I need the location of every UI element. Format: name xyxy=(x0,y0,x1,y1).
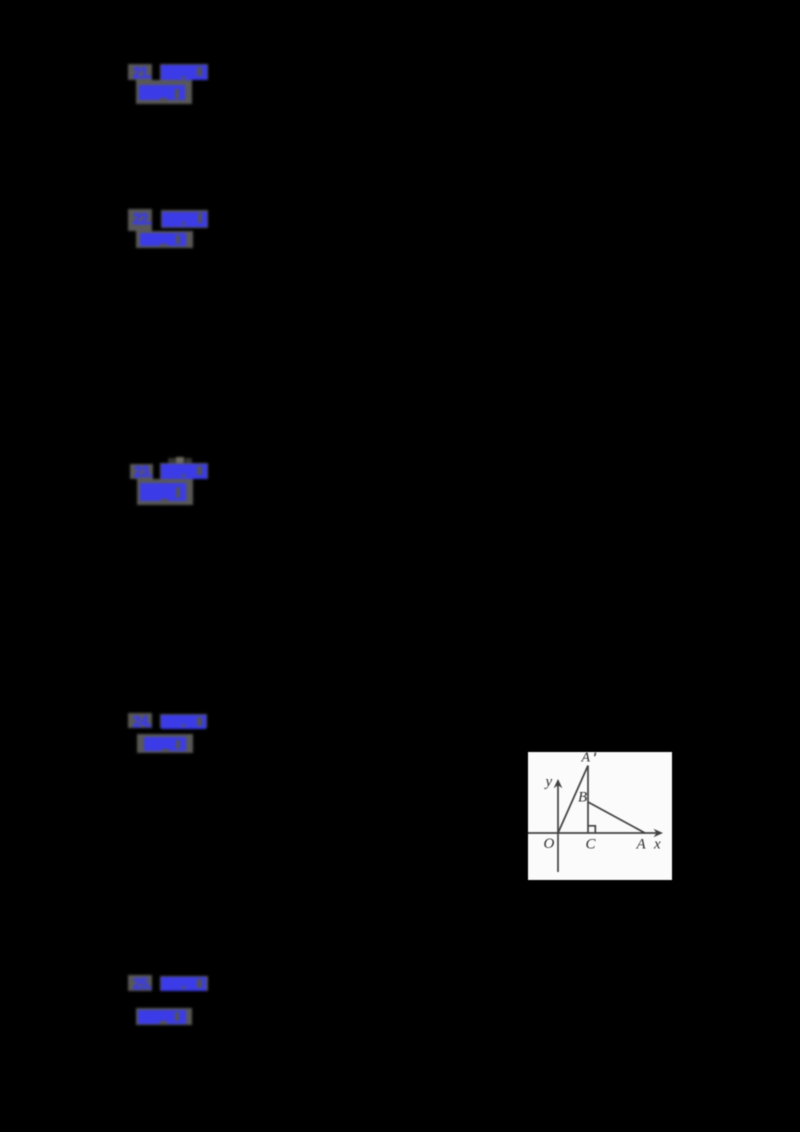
item 23 label highlight xyxy=(160,463,209,480)
segment B to A xyxy=(588,802,645,833)
item 21 label highlight xyxy=(160,64,208,80)
y axis xyxy=(557,781,559,873)
item 24 label highlight xyxy=(160,714,207,729)
item 25 line2 highlight xyxy=(136,1008,192,1025)
item 22 number highlight xyxy=(128,209,152,231)
item 23 line2 highlight xyxy=(137,479,193,505)
item 25 xyxy=(120,967,220,1033)
item 24 line2 blue block xyxy=(144,737,186,751)
y axis arrowhead xyxy=(554,779,563,788)
item 23 label blue block xyxy=(161,464,207,479)
x axis arrowhead xyxy=(654,829,664,837)
item 22 xyxy=(120,200,220,256)
item 22 line2 highlight xyxy=(136,231,193,249)
item 21 label blue block xyxy=(161,65,207,80)
item 24 label blue block xyxy=(161,715,206,729)
svg-text:y: y xyxy=(544,774,553,790)
item 23 line2 blue block xyxy=(140,483,186,501)
item 22 label highlight xyxy=(161,210,208,228)
item 23 faint marks xyxy=(168,458,176,465)
svg-text:A: A xyxy=(636,837,647,853)
svg-text:C: C xyxy=(586,837,597,853)
item 21 line2 blue block xyxy=(139,85,185,100)
diagram figure xyxy=(528,752,672,880)
item 22 number text xyxy=(133,213,151,226)
right angle at C xyxy=(588,826,595,833)
item 24 number text xyxy=(133,716,151,729)
item 24 number highlight xyxy=(128,713,152,729)
svg-text:x: x xyxy=(653,837,661,853)
segment A'C xyxy=(587,766,589,834)
item 23 number text xyxy=(134,466,152,479)
segment O to A' xyxy=(558,766,588,834)
item 21 number highlight xyxy=(128,64,152,80)
item 25 number text xyxy=(133,978,151,991)
item 24 xyxy=(120,704,220,760)
item 21 line2 highlight xyxy=(136,80,192,105)
item 22 line2 blue block xyxy=(140,233,187,246)
item 24 line2 highlight xyxy=(137,734,194,753)
item 23 xyxy=(120,450,220,510)
item 21 xyxy=(120,56,220,112)
svg-text:O: O xyxy=(544,836,555,852)
item 21 number text xyxy=(133,67,151,80)
item 25 line2 blue block xyxy=(138,1010,186,1024)
item 25 label blue block xyxy=(161,977,206,991)
item 22 label blue block xyxy=(162,212,207,227)
prime of A' xyxy=(595,753,596,757)
item 23 number highlight xyxy=(130,464,153,479)
item 25 label highlight xyxy=(160,976,208,992)
svg-text:B: B xyxy=(578,790,587,806)
svg-text:A: A xyxy=(581,752,591,766)
item 25 number highlight xyxy=(128,975,153,991)
x axis xyxy=(528,832,661,834)
